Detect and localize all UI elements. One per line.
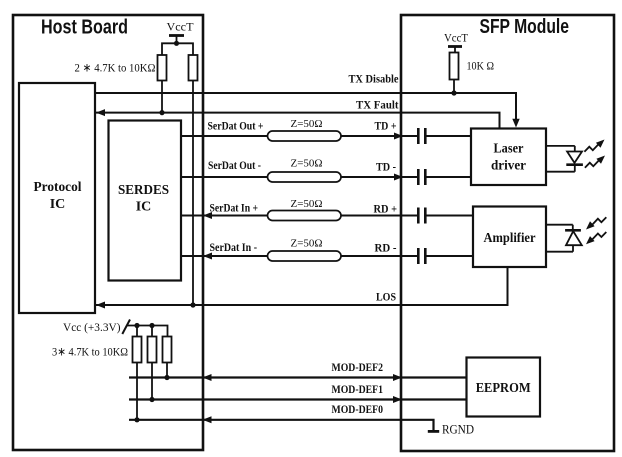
photodiode bbox=[546, 225, 582, 252]
light input arrow 1 bbox=[586, 217, 606, 229]
svg-text:MOD-DEF2: MOD-DEF2 bbox=[332, 360, 384, 374]
wire R5 lead to MOD-DEF1 bbox=[151, 363, 153, 400]
resistor R5 (pullup MOD-DEF1) bbox=[148, 337, 157, 363]
wire TX Fault bbox=[96, 113, 500, 129]
resistor R6 (pullup MOD-DEF2) bbox=[163, 337, 172, 363]
svg-text:TD -: TD - bbox=[376, 160, 396, 174]
junction dot R4 on MOD-DEF0 bbox=[134, 417, 139, 422]
EEPROM bbox=[467, 358, 541, 417]
svg-text:10K Ω: 10K Ω bbox=[467, 59, 495, 73]
svg-text:SERDES: SERDES bbox=[118, 183, 169, 198]
arrow MOD-DEF1 into SFP bbox=[393, 396, 402, 403]
svg-text:SerDat In -: SerDat In - bbox=[210, 240, 258, 254]
svg-text:Z=50Ω: Z=50Ω bbox=[291, 157, 323, 169]
wire SerDat In - / RD - bbox=[181, 255, 473, 257]
arrow MOD-DEF2 into SFP bbox=[393, 374, 402, 381]
wire rail stub R5 bbox=[151, 326, 153, 337]
capacitor C1 (TD+) bbox=[418, 128, 425, 144]
arrow SerDat In + into host board bbox=[203, 212, 212, 219]
wire R2 lead to LOS bbox=[192, 81, 194, 306]
laser diode LED bbox=[546, 146, 583, 172]
protocol IC bbox=[19, 83, 95, 313]
light emission arrow 2 bbox=[585, 156, 605, 168]
Vcc 3.3V supply symbol bbox=[63, 320, 130, 335]
SERDES IC bbox=[109, 121, 182, 281]
junction dot under VccT (host) bbox=[174, 41, 179, 46]
host board box bbox=[13, 15, 203, 450]
capacitor C3 (RD+) bbox=[418, 208, 425, 224]
capacitor C4 (RD-) bbox=[418, 248, 425, 264]
SFP module box bbox=[401, 15, 614, 451]
wire LOS bbox=[96, 267, 508, 305]
transmission line Z=50 (RD-) bbox=[268, 251, 342, 261]
resistor R1 (4.7K to 10K pullup, TX Fault) bbox=[158, 55, 167, 81]
resistor R3 10K pullup (TX Disable) bbox=[450, 53, 459, 80]
svg-text:Vcc (+3.3V): Vcc (+3.3V) bbox=[63, 320, 121, 334]
wire R6 lead to MOD-DEF2 bbox=[166, 363, 168, 378]
junction dot R3 on TX Disable bbox=[451, 90, 456, 95]
svg-text:SFP Module: SFP Module bbox=[480, 16, 570, 38]
resistor R4 (pullup MOD-DEF0) bbox=[133, 337, 142, 363]
svg-text:TX Disable: TX Disable bbox=[349, 72, 400, 86]
light input arrow 2 bbox=[586, 232, 606, 244]
svg-text:driver: driver bbox=[491, 159, 526, 174]
capacitor C2 (TD-) bbox=[418, 169, 425, 185]
svg-text:VccT: VccT bbox=[167, 20, 195, 34]
arrow MOD-DEF2 into host board bbox=[203, 374, 212, 381]
VccT supply symbol (SFP) bbox=[444, 31, 469, 53]
svg-text:Protocol: Protocol bbox=[34, 180, 82, 195]
svg-text:SerDat Out -: SerDat Out - bbox=[208, 158, 261, 172]
arrow TX Fault into protocol IC bbox=[96, 109, 105, 116]
svg-text:SerDat In +: SerDat In + bbox=[210, 201, 259, 215]
svg-text:MOD-DEF0: MOD-DEF0 bbox=[332, 402, 384, 416]
wire SerDat In + / RD + bbox=[181, 215, 473, 217]
svg-text:Z=50Ω: Z=50Ω bbox=[291, 198, 323, 210]
svg-text:TX Fault: TX Fault bbox=[356, 98, 399, 112]
transmission line Z=50 (TD-) bbox=[268, 172, 342, 182]
wire MOD-DEF0 bbox=[129, 420, 434, 431]
svg-text:VccT: VccT bbox=[444, 31, 469, 45]
svg-text:3∗ 4.7K to 10KΩ: 3∗ 4.7K to 10KΩ bbox=[52, 345, 128, 359]
wire rail stub R4 bbox=[136, 326, 138, 337]
arrow TD- into SFP bbox=[394, 174, 403, 181]
svg-text:Z=50Ω: Z=50Ω bbox=[291, 237, 323, 249]
svg-text:LOS: LOS bbox=[376, 290, 396, 304]
light emission arrow 1 bbox=[584, 140, 604, 152]
arrow TX Disable into laser driver bbox=[512, 119, 519, 128]
svg-text:RD +: RD + bbox=[374, 202, 398, 216]
amplifier bbox=[473, 207, 546, 268]
svg-text:2 ∗ 4.7K to 10KΩ: 2 ∗ 4.7K to 10KΩ bbox=[75, 61, 156, 75]
wire MOD-DEF2 bbox=[129, 376, 467, 378]
junction dot rail R4 bbox=[134, 323, 139, 328]
svg-text:RGND: RGND bbox=[442, 422, 474, 437]
transmission line Z=50 (TD+) bbox=[268, 131, 342, 141]
svg-text:RD -: RD - bbox=[375, 241, 397, 255]
transmission line Z=50 (RD+) bbox=[268, 211, 342, 221]
arrow TD+ into SFP bbox=[394, 133, 403, 140]
junction dot R1 on TX Fault bbox=[159, 110, 164, 115]
wire Vcc rail bbox=[127, 326, 168, 337]
resistor R2 (4.7K to 10K pullup, LOS) bbox=[189, 55, 198, 81]
svg-text:Z=50Ω: Z=50Ω bbox=[291, 118, 323, 130]
wire split to pullup resistors R1 R2 bbox=[162, 43, 193, 55]
svg-text:Laser: Laser bbox=[494, 142, 524, 157]
arrow SerDat In - into host board bbox=[203, 253, 212, 260]
junction dot R2 on LOS bbox=[190, 302, 195, 307]
svg-text:Amplifier: Amplifier bbox=[484, 231, 536, 246]
svg-text:MOD-DEF1: MOD-DEF1 bbox=[332, 382, 384, 396]
wire SerDat Out + / TD + bbox=[181, 135, 471, 137]
svg-text:IC: IC bbox=[136, 200, 152, 215]
arrow LOS into protocol IC bbox=[96, 302, 105, 309]
wire R3 lead bbox=[453, 80, 455, 94]
svg-text:SerDat Out +: SerDat Out + bbox=[208, 119, 264, 133]
svg-text:Host Board: Host Board bbox=[41, 17, 128, 39]
wire MOD-DEF1 bbox=[129, 398, 467, 400]
ground RGND bbox=[428, 422, 474, 437]
svg-text:IC: IC bbox=[50, 197, 66, 212]
wire R1 lead to TX Fault bbox=[161, 81, 163, 113]
wire TX Disable bbox=[95, 93, 516, 120]
svg-text:EEPROM: EEPROM bbox=[476, 381, 531, 396]
VccT supply symbol (host) bbox=[167, 20, 195, 44]
junction dot R6 on MOD-DEF2 bbox=[164, 375, 169, 380]
junction dot rail R5 bbox=[149, 323, 154, 328]
arrow MOD-DEF0 into host board bbox=[203, 416, 212, 423]
svg-text:TD +: TD + bbox=[375, 119, 397, 133]
junction dot R5 on MOD-DEF1 bbox=[149, 397, 154, 402]
wire SerDat Out - / TD - bbox=[181, 176, 471, 178]
wire R4 lead to MOD-DEF0 bbox=[136, 363, 138, 420]
laser driver bbox=[471, 129, 546, 186]
